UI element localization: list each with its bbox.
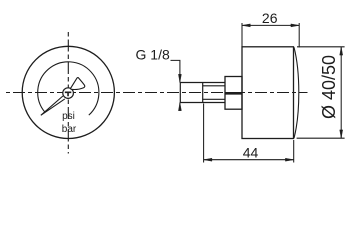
hub circle (63, 88, 74, 99)
dim 26 arrow right (291, 24, 299, 27)
hex nut (225, 77, 242, 110)
case rectangle (242, 47, 294, 139)
G 1/8 arrow top (178, 74, 181, 82)
nut middle band (225, 92, 242, 95)
horizontal centerline (common axis) (6, 92, 308, 94)
needle spade tail (71, 78, 85, 90)
dim 44 right extension (293, 140, 295, 163)
dia bottom extension (297, 137, 345, 139)
dia arrow bottom (340, 130, 343, 138)
stem end face (179, 83, 181, 103)
thread root lines (203, 86, 225, 100)
vertical centerline (front view) (67, 32, 69, 154)
svg-text:Ø 40/50: Ø 40/50 (319, 55, 339, 119)
dim 26 right extension (298, 23, 300, 47)
gauge outer circle (front view bezel) (22, 46, 114, 138)
side view: stem outer lines (181, 83, 226, 103)
G 1/8 leader (171, 60, 180, 110)
svg-text:G 1/8: G 1/8 (136, 47, 170, 63)
dim 44 left extension (203, 104, 205, 163)
dim 26 line (242, 24, 299, 26)
dim dia 40/50 line (340, 47, 342, 138)
lens arc (front window) (294, 47, 299, 138)
gauge inner dial arc (38, 62, 99, 115)
thread shoulder line (202, 83, 204, 103)
dim 44 arrow left (204, 158, 212, 161)
svg-text:26: 26 (262, 10, 278, 26)
dim 26 arrow left (242, 24, 250, 27)
svg-text:bar: bar (62, 124, 77, 135)
dia arrow top (340, 47, 343, 55)
dia top extension (297, 46, 345, 48)
dim 26 left extension (241, 23, 243, 47)
G 1/8 arrow bottom (178, 103, 181, 111)
needle (41, 96, 65, 115)
hub T marker (65, 92, 72, 96)
dim 44 line (204, 159, 294, 161)
svg-text:44: 44 (243, 145, 259, 161)
dim 44 arrow right (285, 158, 293, 161)
